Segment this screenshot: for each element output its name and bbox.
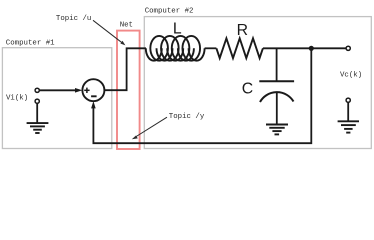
Vi input terminal (upper) [35, 88, 39, 92]
resistor R [216, 38, 263, 58]
wire R to output [263, 47, 346, 49]
capacitor branch stub [276, 48, 278, 81]
capacitor C bottom plate (arc) [260, 92, 294, 102]
wire Vc lower terminal to ground [347, 102, 349, 121]
inductor L loops [146, 36, 205, 61]
svg-text:Topic /u: Topic /u [56, 15, 91, 23]
capacitor C top plate [259, 80, 294, 82]
Vc lower terminal [346, 98, 350, 102]
ground (output) [338, 121, 359, 132]
svg-text:Vc(k): Vc(k) [340, 71, 362, 79]
summing junction U1 [82, 79, 104, 101]
net box (red) [117, 31, 140, 149]
Vi lower terminal [35, 99, 39, 103]
wire lower terminal to ground [36, 103, 38, 122]
ground (input) [27, 123, 49, 133]
ground (capacitor) [266, 125, 288, 135]
feedback wire down and across [93, 48, 311, 143]
Vc output terminal [346, 46, 350, 50]
wire summing junction output to corner [104, 48, 146, 90]
wire Vi to summing junction with arrowhead [39, 89, 76, 91]
Computer #1 box [2, 48, 111, 149]
svg-text:Vi(k): Vi(k) [6, 94, 28, 102]
svg-text:Computer #2: Computer #2 [145, 7, 194, 15]
junction node dot [309, 46, 314, 51]
Computer #2 box [144, 17, 371, 149]
svg-text:Computer #1: Computer #1 [6, 39, 55, 47]
svg-text:R: R [237, 22, 248, 39]
svg-text:C: C [242, 81, 253, 98]
plus sign [84, 88, 89, 93]
Topic /y arrow [132, 117, 167, 139]
feedback arrowhead into summing junction [91, 101, 96, 108]
wire L to R [205, 47, 217, 49]
minus sign [91, 95, 97, 97]
svg-text:Topic /y: Topic /y [169, 113, 205, 121]
svg-text:Net: Net [120, 21, 133, 29]
svg-text:L: L [173, 20, 182, 37]
capacitor stem to ground [276, 92, 278, 124]
Topic /u arrow [93, 20, 125, 45]
